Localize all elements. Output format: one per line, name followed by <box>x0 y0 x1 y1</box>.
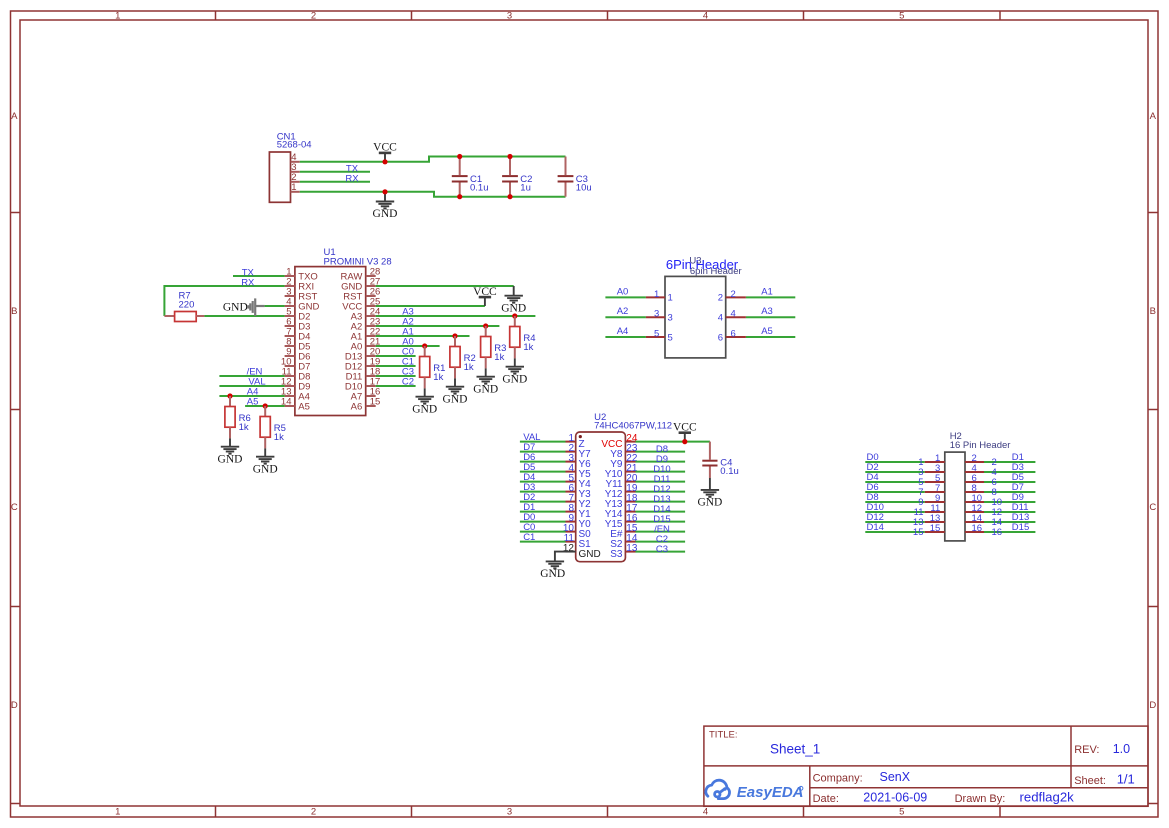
H2 pin 13 <box>925 521 945 523</box>
wire CN1 pin3 TX <box>300 171 370 173</box>
CN1 pin 3 <box>291 171 300 173</box>
svg-text:1k: 1k <box>239 422 249 433</box>
U2 pin 22 Y9 <box>625 461 635 463</box>
H2 pin 7 <box>925 491 945 493</box>
U1 pin 9 D6 <box>285 355 295 357</box>
svg-text:RX: RX <box>241 278 255 289</box>
U2 pin 18 Y13 <box>625 501 635 503</box>
wire U2 pin 13 <box>636 551 686 553</box>
svg-text:2: 2 <box>731 289 736 300</box>
svg-text:0.1u: 0.1u <box>720 466 739 477</box>
svg-text:VCC: VCC <box>473 286 497 298</box>
svg-text:15: 15 <box>930 523 941 534</box>
H2 pin 10 <box>965 501 984 503</box>
svg-text:A2: A2 <box>617 306 629 317</box>
wire U1 pin21 A0 <box>376 345 440 347</box>
wire H2 pin 8 to D7 <box>984 491 1035 493</box>
svg-text:74HC4067PW,112: 74HC4067PW,112 <box>594 421 672 432</box>
wire U1 pin13 A4 <box>219 395 284 397</box>
U3 pin 2 <box>726 296 746 298</box>
resistor R5 <box>263 403 268 408</box>
U2 pin 19 Y12 <box>625 491 635 493</box>
wire D0 to U2 pin 9 <box>520 521 566 523</box>
wire H2 pin 14 to D13 <box>984 521 1035 523</box>
junction at VCC <box>382 159 387 164</box>
svg-text:GND: GND <box>473 383 498 395</box>
wire U2 pin 19 <box>636 491 686 493</box>
resistor R4 <box>512 313 517 318</box>
wire U3 pin 6 to A5 <box>746 336 795 338</box>
CN1 pin 4 <box>291 161 300 163</box>
U2 pin 21 Y10 <box>625 471 635 473</box>
svg-text:GND: GND <box>501 302 526 314</box>
capacitor C4 0.1u <box>709 442 711 460</box>
U2 pin 11 S1 <box>566 541 576 543</box>
title block outline <box>704 726 1148 806</box>
svg-text:GND: GND <box>502 373 527 385</box>
svg-text:EasyEDA: EasyEDA <box>737 784 804 801</box>
wire U1 pin19 C1 <box>376 365 416 367</box>
U2 pin 12 GND <box>566 551 576 553</box>
frame row ticks <box>11 212 21 214</box>
VCC net flag at U2 pin24 <box>684 433 686 442</box>
svg-text:Company:: Company: <box>813 773 863 785</box>
wire U2 pin 23 <box>636 451 686 453</box>
svg-text:5: 5 <box>654 329 659 340</box>
svg-text:TITLE:: TITLE: <box>709 730 738 741</box>
wire D2 to H2 pin 3 <box>865 471 925 473</box>
wire D10 to H2 pin 11 <box>865 511 925 513</box>
H2 pin 1 <box>925 461 945 463</box>
svg-text:15: 15 <box>913 527 924 538</box>
wire U1 pin25 to VCC flag <box>376 305 485 307</box>
ground net flag at CN1 <box>384 192 386 202</box>
wire D12 to H2 pin 13 <box>865 521 925 523</box>
svg-text:1k: 1k <box>523 342 533 353</box>
svg-text:VCC: VCC <box>373 142 397 154</box>
ground net flag at U1 pin27 <box>513 286 515 296</box>
wire U2 pin24 to C4 <box>685 441 710 443</box>
H2 pin 4 <box>965 471 984 473</box>
H2 pin 9 <box>925 501 945 503</box>
U1 pin 8 D5 <box>285 345 295 347</box>
svg-text:1: 1 <box>291 182 296 193</box>
wire U1 pin12 VAL <box>219 385 284 387</box>
wire U1 pin22 A1 <box>376 335 470 337</box>
VCC net flag at U1 pin25 <box>484 297 486 306</box>
svg-text:GND: GND <box>412 403 437 415</box>
ground below R6 <box>229 438 231 446</box>
wire D6 to H2 pin 7 <box>865 491 925 493</box>
wire D5 to U2 pin 4 <box>520 471 566 473</box>
U2 pin 20 Y11 <box>625 481 635 483</box>
U2 pin 8 Y1 <box>566 511 576 513</box>
U1 pin 7 D4 <box>285 335 295 337</box>
svg-text:RX: RX <box>345 173 359 184</box>
wire U2 pin 16 <box>636 521 686 523</box>
op-amp U1 PROMINI V3 28 body <box>295 267 366 416</box>
svg-text:2: 2 <box>311 807 316 818</box>
svg-text:A3: A3 <box>761 306 773 317</box>
U1 pin 28 RAW <box>366 275 376 277</box>
svg-text:16: 16 <box>992 527 1003 538</box>
svg-text:1/1: 1/1 <box>1117 772 1135 787</box>
svg-text:0.1u: 0.1u <box>470 183 489 194</box>
wire U2 pin 24 <box>636 441 686 443</box>
junctions at C2 <box>507 154 512 159</box>
op-amp U2 body <box>576 432 626 562</box>
svg-text:1k: 1k <box>464 362 474 373</box>
wire U1 pin20 C0 <box>376 355 416 357</box>
wire D2 to U2 pin 7 <box>520 501 566 503</box>
wire H2 pin 12 to D11 <box>984 511 1035 513</box>
U2 pin 23 Y8 <box>625 451 635 453</box>
svg-text:Sheet:: Sheet: <box>1074 775 1106 787</box>
U2 pin 1 Z <box>566 441 576 443</box>
svg-text:1: 1 <box>668 293 673 304</box>
svg-text:U3: U3 <box>689 256 701 267</box>
svg-text:GND: GND <box>253 463 278 475</box>
U1 pin 11 D8 <box>285 375 295 377</box>
wire U1 pin11 /EN <box>219 375 284 377</box>
U1 pin 24 A3 <box>366 315 376 317</box>
wire D3 to U2 pin 6 <box>520 491 566 493</box>
svg-text:B: B <box>1150 306 1156 317</box>
svg-text:15: 15 <box>370 396 381 407</box>
wire H2 pin 4 to D3 <box>984 471 1035 473</box>
junction at U2 VCC <box>682 439 687 444</box>
U3 pin 6 <box>726 336 746 338</box>
VCC net flag at CN1 <box>384 153 386 162</box>
resistor R6 <box>227 393 232 398</box>
capacitor C1 <box>459 157 461 176</box>
svg-text:A: A <box>1150 111 1157 122</box>
svg-text:2: 2 <box>311 10 316 21</box>
wire U1 pin27 to GND flag <box>376 285 514 287</box>
wire U2 pin 18 <box>636 501 686 503</box>
title block dividers <box>704 765 1148 767</box>
svg-text:2021-06-09: 2021-06-09 <box>863 791 927 805</box>
wire D1 to U2 pin 8 <box>520 511 566 513</box>
svg-text:GND: GND <box>579 549 601 560</box>
svg-text:Drawn By:: Drawn By: <box>955 793 1006 805</box>
H2 pin 14 <box>965 521 984 523</box>
svg-text:220: 220 <box>179 299 195 310</box>
wire GND flag to U1 pin4 <box>265 305 285 307</box>
CN1 pin 1 <box>291 191 300 193</box>
svg-text:4: 4 <box>703 807 708 818</box>
wire CN1 pin4 to VCC and caps top rail <box>300 157 566 162</box>
wire U2 pin 14 <box>636 541 686 543</box>
wire D8 to H2 pin 9 <box>865 501 925 503</box>
svg-text:1k: 1k <box>433 372 443 383</box>
H2 pin 6 <box>965 481 984 483</box>
wire R7 to U1 pin5 <box>204 315 284 317</box>
svg-text:D: D <box>1149 700 1156 711</box>
wire U3 pin 4 to A3 <box>746 316 795 318</box>
U1 pin 14 A5 <box>285 405 295 407</box>
svg-text:D: D <box>11 700 18 711</box>
svg-text:1.0: 1.0 <box>1113 742 1130 756</box>
wire H2 pin 6 to D5 <box>984 481 1035 483</box>
ground below C4 <box>709 478 711 490</box>
svg-text:A: A <box>11 111 18 122</box>
wire A4 to U3 pin 5 <box>605 336 646 338</box>
resistor R3 <box>483 323 488 328</box>
wire U2 pin 15 <box>636 531 686 533</box>
EasyEDA logo cloud <box>706 780 730 798</box>
connector CN1 5268-04 body <box>269 152 290 202</box>
U1 pin 26 RST <box>366 295 376 297</box>
wire H2 pin 2 to D1 <box>984 461 1035 463</box>
wire A0 to U3 pin 1 <box>605 296 646 298</box>
resistor R1 <box>422 343 427 348</box>
svg-text:PROMINI V3 28: PROMINI V3 28 <box>324 256 392 267</box>
wire U1 pin18 C3 <box>376 375 416 377</box>
U2 pin 16 Y15 <box>625 521 635 523</box>
U1 pin 16 A7 <box>366 395 376 397</box>
U2 pin 7 Y2 <box>566 501 576 503</box>
U3 pin 5 <box>646 336 665 338</box>
svg-text:4: 4 <box>731 309 736 320</box>
svg-text:B: B <box>11 306 17 317</box>
svg-text:6: 6 <box>731 329 736 340</box>
wire A2 to U3 pin 3 <box>605 316 646 318</box>
U1 pin 1 TXO <box>285 275 295 277</box>
U1 pin 4 GND <box>285 305 295 307</box>
svg-text:1k: 1k <box>494 352 504 363</box>
wire H2 pin 16 to D15 <box>984 531 1035 533</box>
svg-text:redflag2k: redflag2k <box>1020 790 1075 805</box>
wire D4 to U2 pin 5 <box>520 481 566 483</box>
CN1 pin 2 <box>291 181 300 183</box>
H2 pin 12 <box>965 511 984 513</box>
svg-text:16: 16 <box>972 523 983 534</box>
ground below R4 <box>514 358 516 366</box>
frame column ticks <box>215 11 217 20</box>
U1 pin 22 A1 <box>366 335 376 337</box>
U2 pin 17 Y14 <box>625 511 635 513</box>
U1 pin 15 A6 <box>366 405 376 407</box>
U1 pin 21 A0 <box>366 345 376 347</box>
U3 pin 1 <box>646 296 665 298</box>
wire U1 pin24 A3 <box>376 315 536 317</box>
wire VAL to U2 pin 1 <box>520 441 566 443</box>
ground below R3 <box>485 368 487 376</box>
U2 pin1 marker dot <box>579 435 582 438</box>
svg-text:D15: D15 <box>1012 522 1029 533</box>
svg-text:GND: GND <box>540 568 565 580</box>
svg-text:GND: GND <box>697 497 722 509</box>
wire U2 pin 21 <box>636 471 686 473</box>
capacitor C3 <box>565 157 567 176</box>
U3 pin 4 <box>726 316 746 318</box>
svg-text:1: 1 <box>115 807 120 818</box>
svg-text:1k: 1k <box>274 432 284 443</box>
wire H2 pin 10 to D9 <box>984 501 1035 503</box>
wire U2 pin12 to ground <box>555 552 566 562</box>
U1 pin 27 GND <box>366 285 376 287</box>
svg-text:S3: S3 <box>610 549 623 560</box>
svg-text:A1: A1 <box>761 286 773 297</box>
H2 pin 15 <box>925 531 945 533</box>
U1 pin 3 RST <box>285 295 295 297</box>
U2 pin 10 S0 <box>566 531 576 533</box>
H2 pin 16 <box>965 531 984 533</box>
svg-text:5: 5 <box>668 332 673 343</box>
H2 pin 8 <box>965 491 984 493</box>
H2 pin 3 <box>925 471 945 473</box>
svg-text:2: 2 <box>718 293 723 304</box>
svg-text:A5: A5 <box>247 396 259 407</box>
svg-text:D14: D14 <box>867 522 884 533</box>
svg-text:C3: C3 <box>656 544 668 555</box>
wire U1 pin1 TX <box>233 275 285 277</box>
svg-text:Date:: Date: <box>813 793 839 805</box>
H2 pin 2 <box>965 461 984 463</box>
svg-text:4: 4 <box>718 313 723 324</box>
ground below R2 <box>454 378 456 386</box>
U2 pin 24 VCC <box>625 441 635 443</box>
svg-text:5: 5 <box>899 807 904 818</box>
wire D6 to U2 pin 3 <box>520 461 566 463</box>
U1 pin 2 RXI <box>285 285 295 287</box>
wire U2 pin 20 <box>636 481 686 483</box>
U2 pin 3 Y6 <box>566 461 576 463</box>
U3 pin 3 <box>646 316 665 318</box>
U1 pin 12 D9 <box>285 385 295 387</box>
svg-text:C1: C1 <box>523 532 535 543</box>
ground at U2 pin12 <box>546 560 564 562</box>
U2 pin 2 Y7 <box>566 451 576 453</box>
svg-text:VCC: VCC <box>673 421 697 433</box>
wire CN1 pin1 to GND and caps bottom rail <box>300 192 566 197</box>
svg-text:C2: C2 <box>402 376 414 387</box>
svg-text:6: 6 <box>718 332 723 343</box>
U1 pin 23 A2 <box>366 325 376 327</box>
wire U2 pin 17 <box>636 511 686 513</box>
svg-text:C: C <box>11 502 18 513</box>
U1 pin 25 VCC <box>366 305 376 307</box>
svg-text:A0: A0 <box>617 286 629 297</box>
wire CN1 pin2 RX <box>300 181 370 183</box>
U2 pin 15 E# <box>625 531 635 533</box>
U2 pin 13 S3 <box>625 551 635 553</box>
wire D0 to H2 pin 1 <box>865 461 925 463</box>
svg-text:3: 3 <box>507 10 512 21</box>
svg-text:1: 1 <box>115 10 120 21</box>
wire U2 pin 22 <box>636 461 686 463</box>
connector U3 body <box>665 276 726 358</box>
U1 pin 19 D12 <box>366 365 376 367</box>
svg-text:4: 4 <box>703 10 708 21</box>
ground below R1 <box>424 388 426 396</box>
svg-text:SenX: SenX <box>880 770 911 784</box>
wire D7 to U2 pin 2 <box>520 451 566 453</box>
svg-text:Sheet_1: Sheet_1 <box>770 742 820 757</box>
resistor R2 <box>452 333 457 338</box>
H2 pin 5 <box>925 481 945 483</box>
svg-text:16 Pin Header: 16 Pin Header <box>950 440 1011 451</box>
svg-text:A4: A4 <box>617 326 629 337</box>
wire U1 pin14 A5 <box>245 405 285 407</box>
svg-text:A5: A5 <box>761 326 773 337</box>
svg-text:C: C <box>1149 502 1156 513</box>
svg-text:3: 3 <box>668 313 673 324</box>
U2 pin 4 Y5 <box>566 471 576 473</box>
junctions at C1 <box>457 154 462 159</box>
ground below R5 <box>264 448 266 456</box>
svg-text:5: 5 <box>899 10 904 21</box>
svg-text:GND: GND <box>443 393 468 405</box>
wire U1 pin23 A2 <box>376 325 500 327</box>
U2 pin 14 S2 <box>625 541 635 543</box>
capacitor C2 <box>509 157 511 176</box>
resistor R7 220 <box>164 315 174 317</box>
svg-text:5268-04: 5268-04 <box>277 140 312 151</box>
U1 pin 6 D3 <box>285 325 295 327</box>
U1 pin 17 D10 <box>366 385 376 387</box>
svg-text:1: 1 <box>654 289 659 300</box>
wire U3 pin 2 to A1 <box>746 296 795 298</box>
svg-text:GND: GND <box>218 453 243 465</box>
wire C0 to U2 pin 10 <box>520 531 566 533</box>
svg-text:3: 3 <box>654 309 659 320</box>
U2 pin 5 Y4 <box>566 481 576 483</box>
svg-text:A6: A6 <box>351 401 363 412</box>
junction at GND <box>382 189 387 194</box>
svg-text:10u: 10u <box>576 183 592 194</box>
U1 pin 18 D11 <box>366 375 376 377</box>
svg-text:REV:: REV: <box>1074 744 1099 756</box>
H2 pin 11 <box>925 511 945 513</box>
svg-text:GND: GND <box>223 301 248 313</box>
wire D14 to H2 pin 15 <box>865 531 925 533</box>
wire U1 pin17 C2 <box>376 385 416 387</box>
U1 pin 13 A4 <box>285 395 295 397</box>
U1 pin 10 D7 <box>285 365 295 367</box>
svg-text:GND: GND <box>373 208 398 220</box>
wire U1 pin2 RX to R7 <box>164 286 284 316</box>
U1 pin 5 D2 <box>285 315 295 317</box>
svg-text:3: 3 <box>507 807 512 818</box>
U2 pin 9 Y0 <box>566 521 576 523</box>
U1 pin 20 D13 <box>366 355 376 357</box>
U2 pin 6 Y3 <box>566 491 576 493</box>
connector H2 body <box>945 452 965 541</box>
svg-text:1u: 1u <box>520 183 531 194</box>
wire C1 to U2 pin 11 <box>520 541 566 543</box>
svg-text:A5: A5 <box>298 401 310 412</box>
wire D4 to H2 pin 5 <box>865 481 925 483</box>
